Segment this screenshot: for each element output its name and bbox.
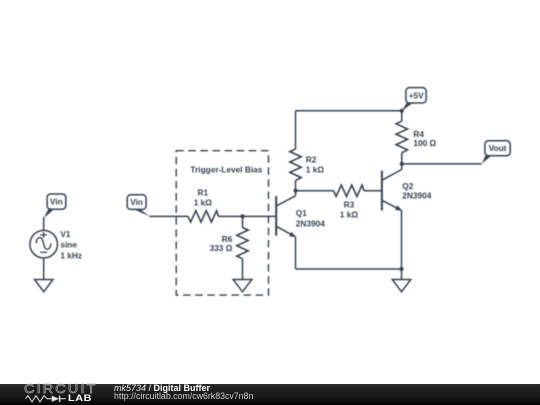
svg-text:333 Ω: 333 Ω <box>210 243 233 253</box>
ground (under R6) <box>233 280 252 292</box>
svg-text:1 kΩ: 1 kΩ <box>340 210 359 220</box>
svg-text:R1: R1 <box>197 187 208 197</box>
wire <box>401 153 403 164</box>
wire <box>242 259 244 280</box>
svg-text:Trigger-Level Bias: Trigger-Level Bias <box>190 165 262 175</box>
resistor R2 <box>290 149 301 181</box>
wire (to Vout) <box>402 163 482 165</box>
svg-text:V1: V1 <box>60 229 71 239</box>
svg-text:R3: R3 <box>344 200 355 210</box>
wire (Q1 emitter) <box>295 237 297 269</box>
node Vin flag (circuit input) <box>127 195 149 217</box>
resistor R6 <box>237 228 248 259</box>
svg-text:Vin: Vin <box>50 197 63 207</box>
wire (top rail) <box>296 110 402 112</box>
wire <box>295 111 297 149</box>
transistor Q1 <box>276 196 296 237</box>
node Vin flag (source side) <box>44 194 66 218</box>
voltage source V1 <box>30 230 58 258</box>
wire <box>43 217 45 230</box>
svg-text:+5V: +5V <box>409 90 424 100</box>
wire (Q1 collector) <box>295 191 297 196</box>
svg-text:Q1: Q1 <box>296 208 307 218</box>
dashed annotation box Trigger-Level Bias <box>176 151 268 295</box>
resistor R3 <box>334 185 365 196</box>
junction node <box>399 267 403 271</box>
node Vout flag <box>482 141 510 164</box>
svg-text:Vin: Vin <box>130 197 143 207</box>
wire (Q1 base) <box>243 215 276 217</box>
ground (under V1) <box>35 280 54 292</box>
svg-text:1 kΩ: 1 kΩ <box>306 165 325 175</box>
value label V1 sine 1 kHz <box>60 229 82 260</box>
svg-text:sine: sine <box>60 240 77 250</box>
wire (Q2 emitter) <box>401 210 403 269</box>
junction node <box>400 109 404 113</box>
wire (Q2 collector) <box>401 164 403 170</box>
footer bar <box>0 384 540 405</box>
wire <box>149 215 188 217</box>
svg-text:Vout: Vout <box>489 143 507 153</box>
svg-text:2N3904: 2N3904 <box>296 218 325 228</box>
wire <box>242 216 244 227</box>
wire <box>43 258 45 279</box>
node +5V flag <box>402 88 426 111</box>
wire <box>219 215 243 217</box>
wire (R3 left) <box>296 190 334 192</box>
wire (bottom rail) <box>296 268 402 270</box>
svg-text:2N3904: 2N3904 <box>402 190 431 200</box>
svg-text:100 Ω: 100 Ω <box>413 138 436 148</box>
title text <box>114 384 210 393</box>
transistor Q2 <box>382 169 402 210</box>
wire (Q2 base) <box>364 190 381 192</box>
junction node <box>294 189 298 193</box>
resistor R4 <box>396 121 407 153</box>
resistor R1 <box>188 211 219 222</box>
svg-text:1 kΩ: 1 kΩ <box>194 197 213 207</box>
junction node <box>400 162 404 166</box>
wire <box>401 111 403 121</box>
CircuitLab logo <box>24 383 98 396</box>
ground (under Q2 emitter) <box>392 280 411 292</box>
svg-text:1 kHz: 1 kHz <box>60 250 82 260</box>
svg-text:R2: R2 <box>306 154 317 164</box>
wire <box>295 181 297 191</box>
junction node <box>240 214 244 218</box>
wire <box>401 269 403 279</box>
